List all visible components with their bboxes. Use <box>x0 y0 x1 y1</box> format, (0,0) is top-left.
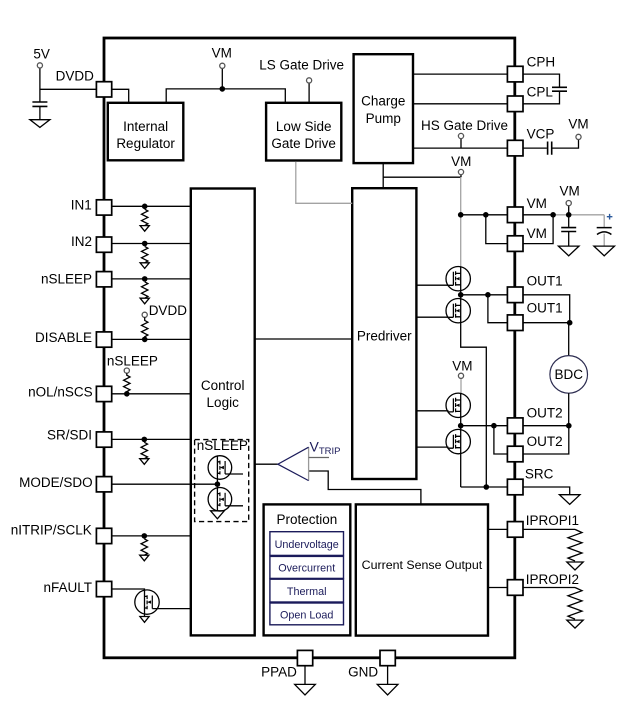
wire OUT1 second pin feed <box>488 295 508 323</box>
ground SRC sense <box>559 495 580 505</box>
resistor R_SCLK pulldown <box>141 539 147 555</box>
pin SRC <box>507 479 523 495</box>
svg-text:Regulator: Regulator <box>116 136 175 151</box>
wire cap2 to ground (gray) <box>603 234 605 246</box>
wire VCP from charge pump to pin <box>413 147 507 149</box>
ground PPAD <box>295 684 316 695</box>
wire cap to ground <box>39 106 41 119</box>
wire nSLEEP switch chain <box>216 456 218 511</box>
transistor Q_SLP1 <box>208 456 243 480</box>
wire VCP pin to series cap <box>523 147 547 149</box>
pin OUT1b <box>507 315 523 331</box>
node OUT2 motor tap <box>566 423 572 429</box>
node OUT1 pin2 tap <box>485 292 491 298</box>
pin CPH <box>507 66 523 82</box>
wire CPH pin to flying cap <box>523 74 560 87</box>
pin CPL <box>507 96 523 112</box>
wire VM terminal stub <box>221 68 223 89</box>
transistor Q_SLP2 <box>208 488 243 512</box>
terminal VM external <box>566 201 571 206</box>
node nSLEEP pulldown <box>142 276 148 282</box>
svg-text:nSLEEP: nSLEEP <box>107 354 158 369</box>
wire IPROPI1 pin to resistor <box>523 528 575 530</box>
wire GND stub to ground <box>387 665 389 684</box>
arrow termination R_SCLK <box>140 555 149 561</box>
node DISABLE pullup <box>142 337 148 343</box>
wire OUT2 pin1 right <box>523 425 569 427</box>
ground GND <box>377 684 398 695</box>
arrow termination R_IN2 <box>140 263 149 269</box>
resistor R_nSCS pullup <box>124 373 130 394</box>
wire CPH from charge pump to pin <box>413 73 507 75</box>
wire control logic to comparator <box>255 463 278 465</box>
svg-text:MODE/SDO: MODE/SDO <box>19 475 93 490</box>
wire nOL/nSCS row <box>112 393 191 395</box>
protection cell Overcurrent <box>270 556 344 578</box>
wire VM external terminal stub <box>568 206 570 215</box>
terminal VM mid <box>458 373 463 378</box>
wire DVDD pin to Internal Regulator <box>112 89 129 103</box>
resistor R_SDI pulldown <box>141 442 147 458</box>
ground under VM bypass cap <box>558 246 579 256</box>
block Charge Pump <box>354 54 413 163</box>
pin GND <box>380 650 395 665</box>
svg-text:VM: VM <box>527 196 547 211</box>
block Low Side Gate Drive <box>266 103 341 161</box>
block Control Logic <box>191 189 255 636</box>
svg-text:IPROPI1: IPROPI1 <box>526 513 579 528</box>
wire VM pin2 feed from rail <box>486 215 508 244</box>
svg-text:nFAULT: nFAULT <box>43 580 92 595</box>
svg-text:OUT1: OUT1 <box>527 301 563 316</box>
resistor R_nSLEEP pulldown <box>142 282 148 298</box>
pin IN1 <box>96 200 111 215</box>
node VM external terminal <box>566 212 572 218</box>
capacitor C_VCP plates <box>548 142 552 155</box>
svg-text:OUT1: OUT1 <box>527 274 563 289</box>
dashed box nSLEEP switch <box>195 440 249 522</box>
resistor R_IPROPI1 <box>568 529 582 561</box>
terminal HS Gate Drive <box>458 133 463 138</box>
wire OUT1 node to pin <box>461 294 508 296</box>
node OUT1 phase <box>458 292 464 298</box>
block Predriver <box>352 188 416 479</box>
svg-text:IN1: IN1 <box>71 198 92 213</box>
wire gate predriver to Q4 <box>416 446 448 448</box>
comparator ITRIP triangle <box>278 447 309 480</box>
pin DVDD <box>96 82 111 97</box>
wire OUT1 to BDC motor <box>568 323 570 356</box>
plus sign polarized cap <box>607 214 613 220</box>
block Protection <box>264 504 351 635</box>
svg-text:VM: VM <box>527 226 547 241</box>
svg-text:VM: VM <box>451 154 471 169</box>
pin VCP <box>507 140 523 156</box>
svg-text:nSLEEP: nSLEEP <box>41 271 92 286</box>
svg-text:Gate Drive: Gate Drive <box>271 136 336 151</box>
arrow termination R_IN1 <box>140 226 149 232</box>
node SR/SDI pulldown <box>142 437 148 443</box>
svg-text:BDC: BDC <box>554 367 583 382</box>
svg-text:CPL: CPL <box>527 85 554 100</box>
wire OUT2 node to pin <box>461 425 508 427</box>
terminal LS Gate Drive <box>307 78 312 83</box>
svg-text:SR/SDI: SR/SDI <box>47 428 92 443</box>
wire nSLEEP row <box>112 278 191 280</box>
wire VM mid terminal stub (gray) <box>460 378 462 393</box>
wire VM vertical supply to high-side FETs (gray) <box>460 177 462 267</box>
pin IPROPI2 <box>507 580 523 596</box>
svg-text:HS Gate Drive: HS Gate Drive <box>421 118 508 133</box>
wire nITRIP/SCLK row <box>112 535 191 537</box>
pin SR/SDI <box>96 432 111 447</box>
svg-text:5V: 5V <box>33 46 50 61</box>
block Current Sense Output <box>356 504 488 635</box>
svg-text:Thermal: Thermal <box>287 586 327 598</box>
wire SRC rail to pin <box>461 486 508 488</box>
svg-text:PPAD: PPAD <box>261 665 297 680</box>
svg-text:VM: VM <box>212 46 232 61</box>
transistor Q1 high-side OUT1 <box>446 267 470 291</box>
capacitor VM bypass plates <box>561 228 576 232</box>
pin VM2 <box>507 236 523 252</box>
wire LS Gate Drive terminal stub <box>308 83 310 103</box>
resistor R_DISABLE pullup <box>142 317 148 339</box>
wire VTRIP reference stub <box>309 457 329 459</box>
capacitor C_FLY plates <box>552 87 567 91</box>
svg-text:Pump: Pump <box>366 111 401 126</box>
wire HS Gate Drive terminal stub <box>460 139 462 149</box>
wire VM rail to VM pin1 <box>461 214 508 216</box>
transistor Q4 low-side OUT2 <box>446 429 470 453</box>
node OUT2 phase <box>458 423 464 429</box>
svg-text:Current Sense Output: Current Sense Output <box>362 558 483 572</box>
wire CPL from charge pump to pin <box>413 103 507 105</box>
svg-text:nITRIP/SCLK: nITRIP/SCLK <box>11 523 92 538</box>
wire nFAULT row <box>112 589 145 591</box>
wire control logic to predriver <box>255 338 353 340</box>
node IN1 pulldown <box>142 204 148 210</box>
node VM pin2 tap <box>483 212 489 218</box>
protection cell Thermal <box>270 579 344 602</box>
node nSLEEP switch midpoint <box>215 481 221 487</box>
wire BDC to OUT2 node <box>568 393 570 426</box>
svg-text:VTRIP: VTRIP <box>310 439 341 458</box>
svg-text:SRC: SRC <box>525 467 554 482</box>
svg-text:Protection: Protection <box>277 512 338 527</box>
wire SRC pin right to ground <box>523 487 570 495</box>
svg-text:DVDD: DVDD <box>149 303 188 318</box>
wire 5V node to DVDD pin <box>40 88 96 90</box>
pin OUT2a <box>507 418 523 434</box>
wire gate predriver to Q2 <box>416 316 448 318</box>
wire IN1 row <box>112 205 191 207</box>
pin PPAD <box>297 650 312 665</box>
wire MODE/SDO row into nSLEEP switch node <box>112 483 218 485</box>
block Internal Regulator <box>108 103 184 161</box>
wire VM pin1 to caps (gray) <box>553 214 604 216</box>
wire charge pump to predriver <box>382 163 384 188</box>
node VM rail left <box>458 212 464 218</box>
wire IN2 row <box>112 243 191 245</box>
pin MODE/SDO <box>96 477 111 492</box>
wire flying cap to CPL pin <box>523 92 560 104</box>
transistor Q_FAULT open drain <box>135 590 191 616</box>
wire series cap to VM terminal <box>552 139 578 148</box>
ground nSLEEP switch <box>211 511 225 519</box>
capacitor VM bulk polarized <box>597 228 612 235</box>
pin nITRIP/SCLK <box>96 528 111 543</box>
svg-text:DISABLE: DISABLE <box>35 330 92 345</box>
wire VM terminal stub above predriver <box>460 175 462 178</box>
wire IPROPI2 pin to resistor <box>523 587 575 589</box>
wire 5V vertical into bypass cap <box>39 68 41 102</box>
wire cap1 to ground <box>568 232 570 247</box>
terminal VM charge pump <box>458 169 463 174</box>
arrow termination R_IPROPI1 <box>567 562 583 570</box>
ground under VM bulk cap <box>594 246 615 256</box>
terminal VM vcp <box>576 134 581 139</box>
wire Q2 source to SRC rail <box>461 323 487 487</box>
wire cap2 stub (gray) <box>603 215 605 227</box>
svg-text:nOL/nSCS: nOL/nSCS <box>28 385 93 400</box>
node nOL/nSCS pullup <box>124 391 130 397</box>
wire OUT2 second pin feed <box>494 426 508 454</box>
pin IN2 <box>96 237 111 252</box>
svg-text:OUT2: OUT2 <box>527 406 563 421</box>
svg-text:VCP: VCP <box>527 126 555 141</box>
wire VM top rail <box>166 89 285 103</box>
svg-text:Open Load: Open Load <box>280 609 333 621</box>
svg-text:IPROPI2: IPROPI2 <box>526 572 579 587</box>
node VM pin2 right return <box>550 212 556 218</box>
svg-text:VM: VM <box>568 117 588 132</box>
terminal VM top <box>220 63 225 68</box>
protection cell Open Load <box>270 603 344 625</box>
wire low side gate drive to predriver (gray) <box>296 162 352 204</box>
wire SR/SDI row <box>112 438 191 440</box>
svg-text:Internal: Internal <box>123 119 168 134</box>
arrow termination R_SDI <box>140 459 149 465</box>
terminal DVDD pullup <box>142 312 147 317</box>
node OUT1 motor tap <box>567 320 573 326</box>
pin nSLEEP <box>96 272 111 287</box>
terminal nSLEEP pullup <box>124 368 129 373</box>
node nITRIP pulldown <box>142 533 148 539</box>
resistor R_IPROPI2 <box>568 588 582 620</box>
svg-text:nSLEEP: nSLEEP <box>197 438 248 453</box>
motor BDC circle <box>550 356 588 394</box>
wire OUT1 pin2 right <box>523 322 570 324</box>
wire gate predriver to Q1 <box>416 284 448 286</box>
arrow termination Q_FAULT source <box>140 617 149 623</box>
protection cell Undervoltage <box>270 532 344 556</box>
wire DISABLE row <box>112 338 191 340</box>
wire PPAD stub to ground <box>304 665 306 684</box>
resistor R_IN2 pulldown <box>142 246 148 262</box>
pin IPROPI1 <box>507 522 523 538</box>
pin VM1 <box>507 207 523 223</box>
wire half-bridge 2 chain <box>460 394 462 488</box>
node IN2 pulldown <box>142 241 148 247</box>
svg-text:Control: Control <box>201 378 245 393</box>
wire comparator out to current sense box <box>309 471 421 504</box>
ground under C_DVDD <box>30 120 50 128</box>
svg-text:VM: VM <box>452 358 472 373</box>
svg-text:Undervoltage: Undervoltage <box>275 539 339 551</box>
transistor Q3 high-side OUT2 <box>446 393 470 417</box>
arrow termination R_IPROPI2 <box>567 620 583 628</box>
wire CSO to IPROPI2 pin <box>488 587 507 589</box>
pin DISABLE <box>96 332 111 347</box>
wire charge pump VM feed <box>383 176 461 178</box>
svg-text:Low Side: Low Side <box>276 119 332 134</box>
node VM top rail junction <box>220 86 226 92</box>
wire OUT2 pin2 right loop <box>523 426 569 454</box>
svg-text:VM: VM <box>559 183 579 198</box>
svg-text:Predriver: Predriver <box>357 328 412 343</box>
main device boundary box <box>104 38 515 658</box>
wire VM pin1 right <box>523 214 553 216</box>
wire VM pin2 right loop <box>523 215 553 244</box>
comparator ITRIP base (gray) <box>308 447 310 480</box>
svg-text:LS Gate Drive: LS Gate Drive <box>259 58 344 73</box>
pin nFAULT <box>96 581 111 596</box>
svg-text:Charge: Charge <box>361 94 405 109</box>
svg-text:Logic: Logic <box>207 395 240 410</box>
node OUT2 pin2 tap <box>491 423 497 429</box>
transistor Q2 low-side OUT1 <box>446 299 470 323</box>
svg-text:CPH: CPH <box>527 55 556 70</box>
svg-text:GND: GND <box>348 665 378 680</box>
wire OUT1 pin1 right loop <box>523 295 570 323</box>
pin OUT2b <box>507 446 523 462</box>
wire cap1 stub <box>568 215 570 227</box>
svg-text:Overcurrent: Overcurrent <box>278 563 335 575</box>
node SRC rail <box>484 484 490 490</box>
svg-text:DVDD: DVDD <box>56 68 95 83</box>
arrow termination R_nSLEEP <box>140 298 149 304</box>
svg-text:OUT2: OUT2 <box>527 434 563 449</box>
pin nOL/nSCS <box>96 386 111 401</box>
wire CSO to IPROPI1 pin <box>488 528 507 530</box>
svg-text:IN2: IN2 <box>71 234 92 249</box>
wire gate predriver to Q3 <box>416 410 448 412</box>
wire half-bridge 1 chain <box>460 267 462 323</box>
capacitor C_DVDD plates <box>32 102 47 106</box>
resistor R_IN1 pulldown <box>142 209 148 225</box>
terminal 5V <box>37 63 42 68</box>
pin OUT1a <box>507 287 523 303</box>
